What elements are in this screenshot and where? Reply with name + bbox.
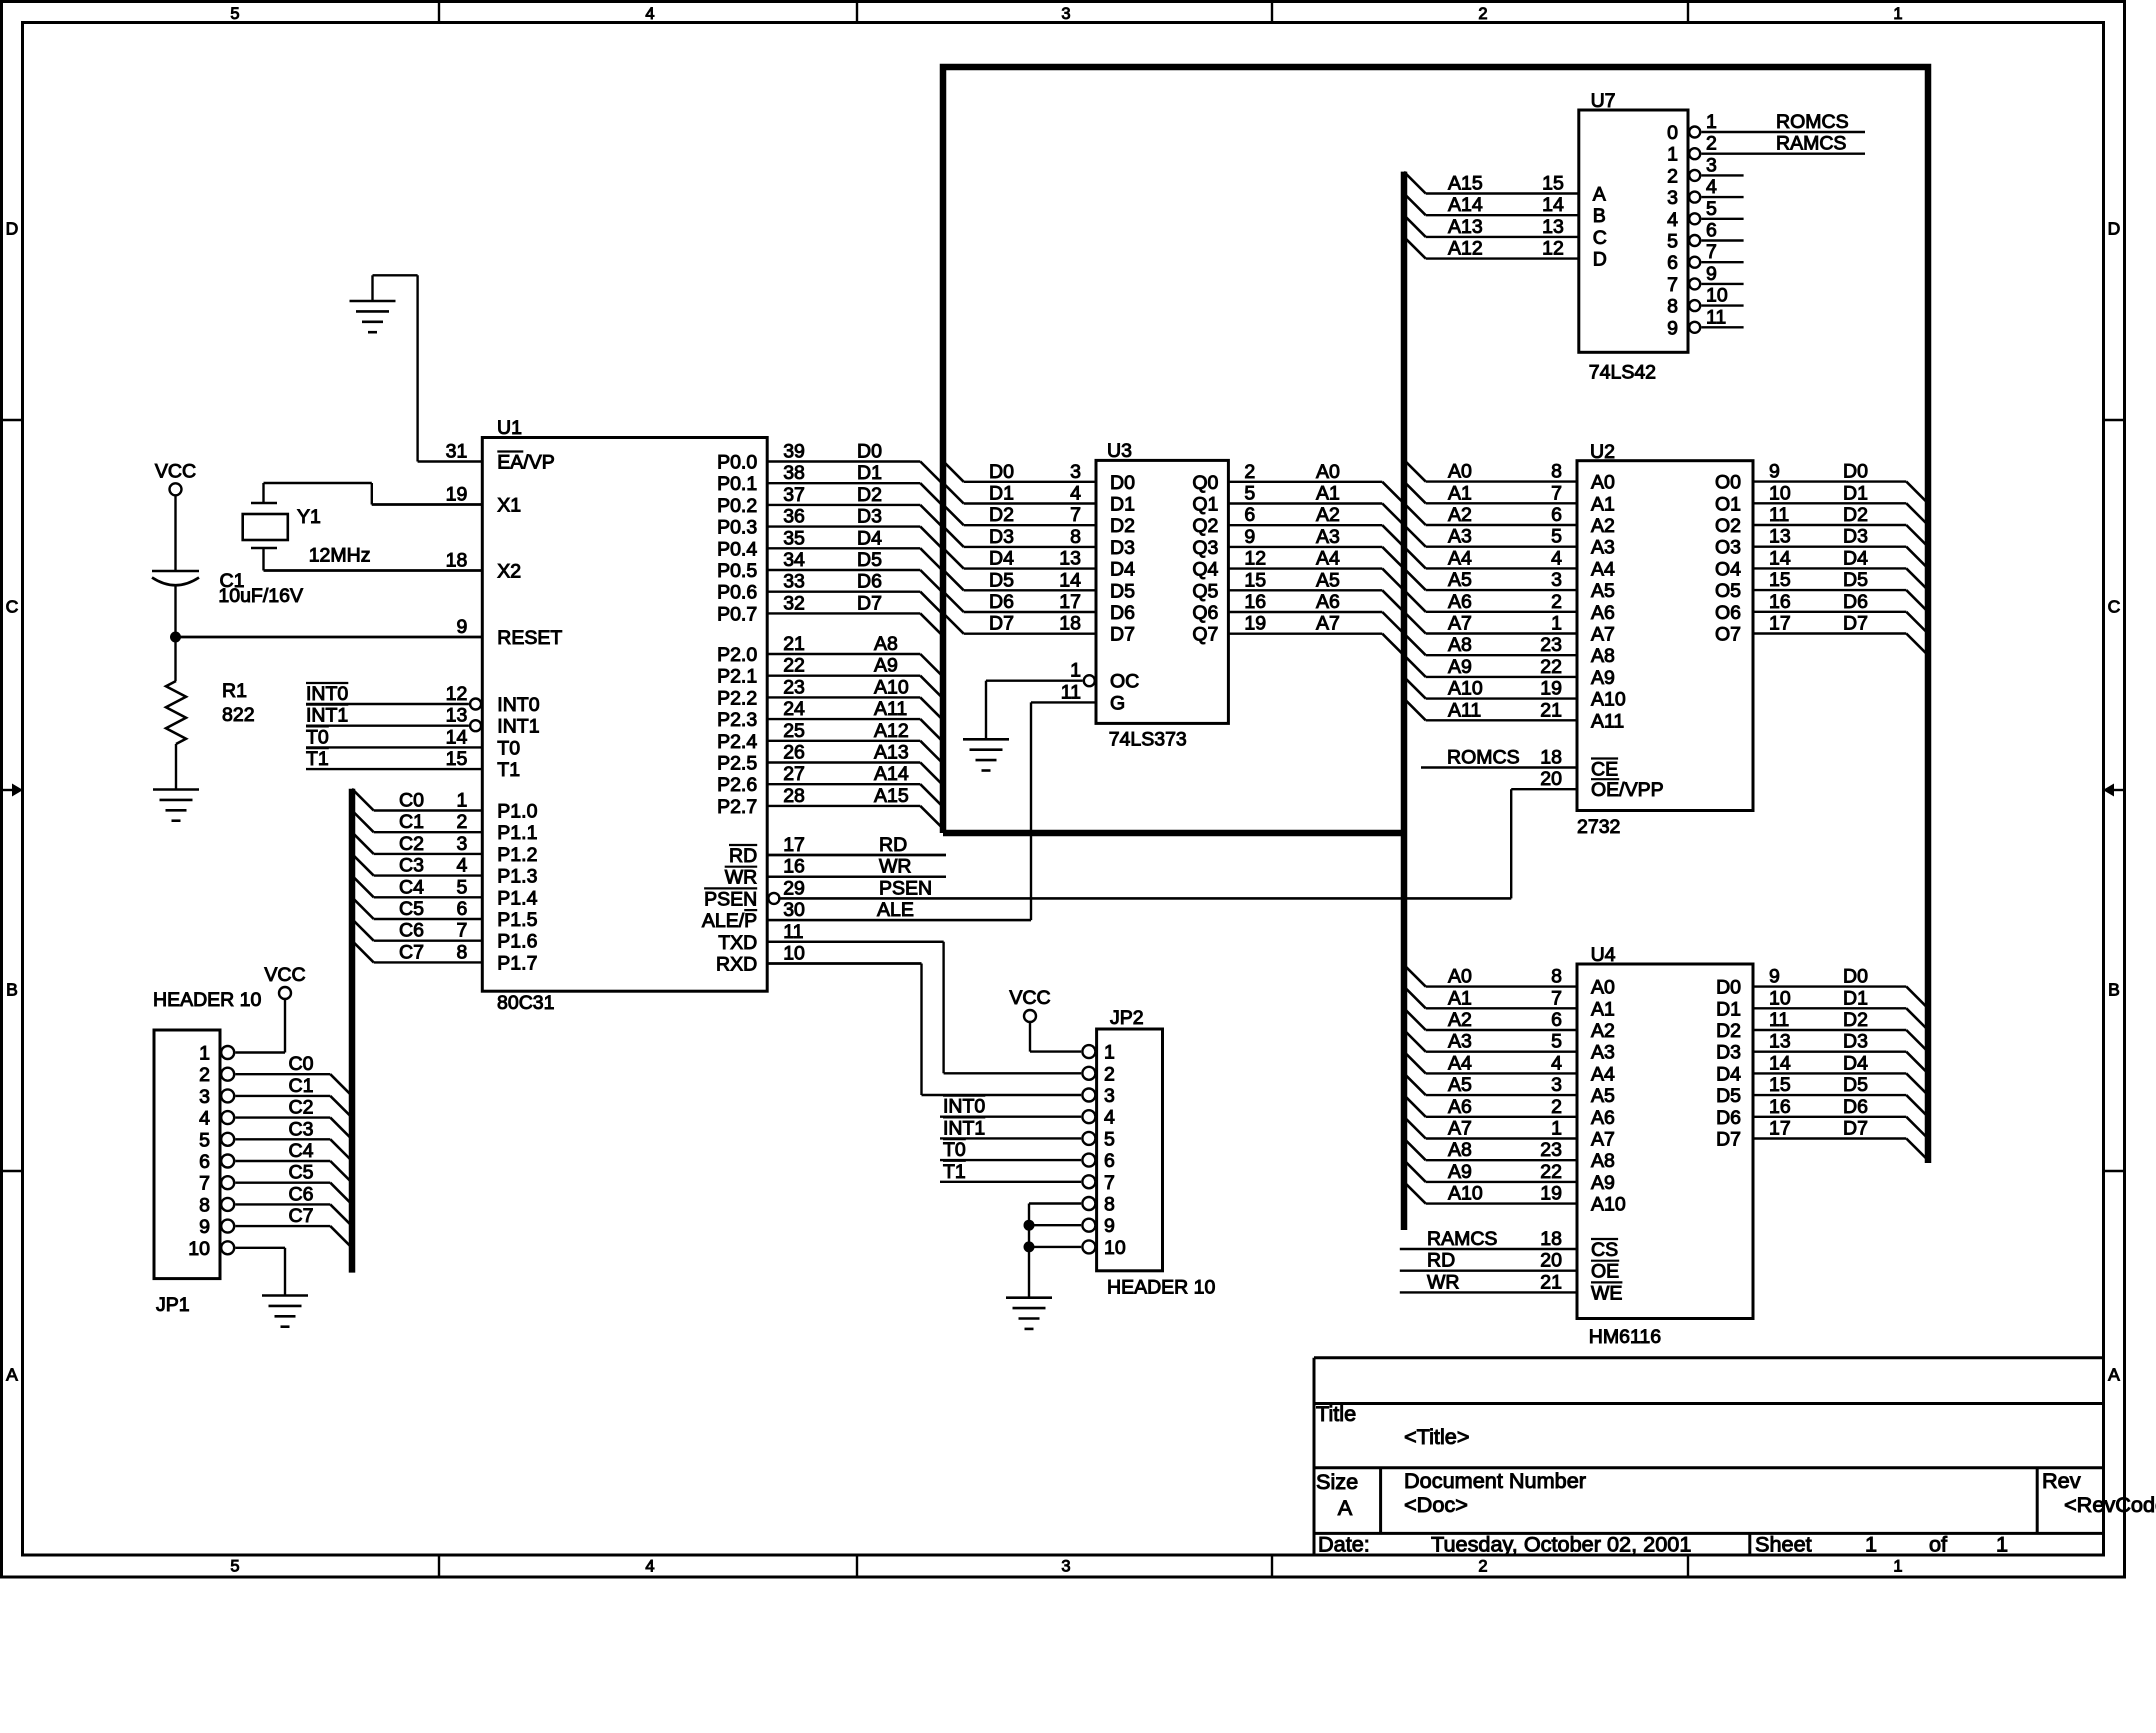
svg-text:A5: A5 xyxy=(1448,569,1472,591)
svg-text:10: 10 xyxy=(783,943,805,965)
svg-text:A: A xyxy=(1593,184,1606,206)
svg-text:5: 5 xyxy=(230,1558,239,1576)
svg-text:1: 1 xyxy=(1893,1558,1902,1576)
svg-text:D2: D2 xyxy=(1843,1009,1868,1031)
svg-text:13: 13 xyxy=(1059,548,1081,570)
svg-text:9: 9 xyxy=(1706,263,1717,285)
svg-text:P2.6: P2.6 xyxy=(717,774,757,796)
svg-text:T1: T1 xyxy=(497,759,520,781)
svg-text:A: A xyxy=(6,1365,18,1385)
svg-text:5: 5 xyxy=(456,876,467,898)
svg-text:D2: D2 xyxy=(857,484,882,506)
svg-text:19: 19 xyxy=(1540,678,1562,700)
svg-text:A0: A0 xyxy=(1316,461,1340,483)
svg-text:O6: O6 xyxy=(1715,602,1741,624)
svg-text:A10: A10 xyxy=(1448,1183,1483,1205)
svg-text:D6: D6 xyxy=(857,571,882,593)
svg-text:ALE: ALE xyxy=(877,899,914,921)
svg-text:JP2: JP2 xyxy=(1110,1007,1144,1029)
svg-text:Q3: Q3 xyxy=(1192,537,1218,559)
svg-text:11: 11 xyxy=(1769,1009,1789,1031)
svg-text:21: 21 xyxy=(783,633,805,655)
svg-text:U3: U3 xyxy=(1107,440,1132,462)
svg-text:D4: D4 xyxy=(1716,1063,1741,1085)
svg-text:13: 13 xyxy=(1542,216,1564,238)
svg-text:P1.7: P1.7 xyxy=(497,952,537,974)
svg-text:24: 24 xyxy=(783,698,805,720)
svg-text:ALE/P: ALE/P xyxy=(702,910,757,932)
svg-text:A11: A11 xyxy=(1448,699,1481,721)
svg-text:35: 35 xyxy=(783,527,805,549)
svg-text:A4: A4 xyxy=(1591,558,1615,580)
svg-text:A6: A6 xyxy=(1591,602,1615,624)
svg-text:4: 4 xyxy=(645,1558,654,1576)
svg-text:6: 6 xyxy=(1667,252,1678,274)
svg-text:A12: A12 xyxy=(874,720,909,742)
svg-text:A6: A6 xyxy=(1448,591,1472,613)
svg-text:17: 17 xyxy=(1769,613,1791,635)
svg-text:D7: D7 xyxy=(1716,1129,1741,1151)
svg-text:4: 4 xyxy=(456,855,467,877)
svg-text:A5: A5 xyxy=(1591,1085,1615,1107)
svg-text:A6: A6 xyxy=(1591,1107,1615,1129)
svg-text:7: 7 xyxy=(1667,274,1678,296)
svg-text:Q5: Q5 xyxy=(1192,580,1218,602)
svg-text:D4: D4 xyxy=(857,527,882,549)
svg-text:O1: O1 xyxy=(1715,493,1741,515)
svg-text:3: 3 xyxy=(199,1086,210,1108)
svg-text:Sheet: Sheet xyxy=(1755,1532,1812,1557)
svg-text:of: of xyxy=(1929,1532,1948,1557)
svg-text:1: 1 xyxy=(1893,5,1902,23)
svg-text:5: 5 xyxy=(1244,483,1255,505)
svg-text:7: 7 xyxy=(1551,987,1562,1009)
svg-text:C: C xyxy=(2108,597,2121,617)
svg-text:D5: D5 xyxy=(1110,580,1135,602)
svg-text:2: 2 xyxy=(1478,1558,1487,1576)
svg-text:HM6116: HM6116 xyxy=(1589,1326,1661,1348)
svg-text:P1.4: P1.4 xyxy=(497,887,537,909)
svg-text:D7: D7 xyxy=(989,613,1014,635)
svg-text:A7: A7 xyxy=(1448,1118,1472,1140)
svg-text:O5: O5 xyxy=(1715,580,1741,602)
svg-text:A11: A11 xyxy=(874,698,907,720)
svg-text:<RevCode>: <RevCode> xyxy=(2064,1492,2156,1517)
svg-text:2732: 2732 xyxy=(1577,816,1620,838)
svg-text:D3: D3 xyxy=(989,526,1014,548)
svg-text:P0.5: P0.5 xyxy=(717,560,757,582)
svg-text:11: 11 xyxy=(1706,306,1726,328)
svg-text:RD: RD xyxy=(729,845,757,867)
svg-text:5: 5 xyxy=(1551,526,1562,548)
svg-text:6: 6 xyxy=(1104,1150,1115,1172)
svg-text:VCC: VCC xyxy=(1009,987,1050,1009)
svg-text:8: 8 xyxy=(456,941,467,963)
svg-text:D3: D3 xyxy=(1843,1031,1868,1053)
svg-text:0: 0 xyxy=(1667,122,1678,144)
svg-text:G: G xyxy=(1110,692,1125,714)
svg-text:A11: A11 xyxy=(1591,710,1624,732)
svg-text:1: 1 xyxy=(1865,1532,1877,1557)
svg-text:<Title>: <Title> xyxy=(1404,1424,1470,1449)
svg-text:22: 22 xyxy=(783,655,805,677)
svg-text:D7: D7 xyxy=(857,592,882,614)
svg-text:HEADER 10: HEADER 10 xyxy=(153,989,262,1011)
svg-text:A3: A3 xyxy=(1591,1042,1615,1064)
svg-text:A8: A8 xyxy=(874,633,898,655)
svg-text:D3: D3 xyxy=(857,506,882,528)
svg-text:12: 12 xyxy=(1244,548,1266,570)
svg-text:74LS373: 74LS373 xyxy=(1109,729,1187,751)
svg-text:9: 9 xyxy=(1244,526,1255,548)
svg-text:X2: X2 xyxy=(497,561,521,583)
svg-text:9: 9 xyxy=(199,1216,210,1238)
svg-text:O7: O7 xyxy=(1715,624,1741,646)
svg-text:19: 19 xyxy=(1540,1183,1562,1205)
svg-text:9: 9 xyxy=(1769,966,1780,988)
svg-text:T0: T0 xyxy=(497,737,520,759)
svg-text:3: 3 xyxy=(1104,1085,1115,1107)
svg-text:A6: A6 xyxy=(1316,591,1340,613)
svg-text:27: 27 xyxy=(783,763,805,785)
svg-text:A7: A7 xyxy=(1591,1129,1615,1151)
svg-text:D7: D7 xyxy=(1110,624,1135,646)
svg-text:15: 15 xyxy=(1769,1074,1791,1096)
svg-text:4: 4 xyxy=(1104,1107,1115,1129)
svg-text:D0: D0 xyxy=(1843,461,1868,483)
svg-text:21: 21 xyxy=(1540,1271,1562,1293)
svg-text:3: 3 xyxy=(1070,461,1081,483)
svg-text:D3: D3 xyxy=(1110,537,1135,559)
svg-text:3: 3 xyxy=(1706,154,1717,176)
svg-text:P2.5: P2.5 xyxy=(717,753,757,775)
svg-text:29: 29 xyxy=(783,877,805,899)
svg-text:3: 3 xyxy=(1061,1558,1070,1576)
svg-text:C2: C2 xyxy=(289,1097,314,1119)
svg-text:4: 4 xyxy=(1070,483,1081,505)
svg-text:VCC: VCC xyxy=(155,460,196,482)
svg-text:INT0: INT0 xyxy=(497,694,539,716)
svg-text:EA/VP: EA/VP xyxy=(497,452,554,474)
svg-text:A4: A4 xyxy=(1591,1063,1615,1085)
svg-text:O2: O2 xyxy=(1715,515,1741,537)
svg-text:23: 23 xyxy=(1540,634,1562,656)
svg-text:RESET: RESET xyxy=(497,627,562,649)
svg-text:10: 10 xyxy=(1769,987,1791,1009)
svg-text:5: 5 xyxy=(1104,1128,1115,1150)
svg-text:P1.3: P1.3 xyxy=(497,866,537,888)
svg-text:3: 3 xyxy=(456,833,467,855)
svg-text:D0: D0 xyxy=(1843,966,1868,988)
svg-text:C0: C0 xyxy=(399,790,424,812)
svg-text:38: 38 xyxy=(783,462,805,484)
svg-text:11: 11 xyxy=(783,921,803,943)
svg-text:2: 2 xyxy=(456,811,467,833)
svg-text:Document Number: Document Number xyxy=(1404,1468,1586,1493)
svg-text:U4: U4 xyxy=(1591,944,1616,966)
svg-text:2: 2 xyxy=(199,1064,210,1086)
svg-text:P2.0: P2.0 xyxy=(717,644,757,666)
svg-text:D0: D0 xyxy=(1110,472,1135,494)
svg-text:A0: A0 xyxy=(1591,472,1615,494)
svg-text:3: 3 xyxy=(1551,569,1562,591)
svg-text:RAMCS: RAMCS xyxy=(1776,133,1846,155)
svg-text:25: 25 xyxy=(783,720,805,742)
svg-text:D1: D1 xyxy=(1110,494,1135,516)
svg-text:P2.3: P2.3 xyxy=(717,709,757,731)
svg-text:WR: WR xyxy=(1427,1271,1460,1293)
svg-text:B: B xyxy=(2108,980,2120,1000)
svg-text:RXD: RXD xyxy=(716,954,757,976)
svg-text:P2.1: P2.1 xyxy=(717,666,757,688)
svg-text:14: 14 xyxy=(446,726,468,748)
svg-text:13: 13 xyxy=(1769,1031,1791,1053)
svg-text:6: 6 xyxy=(199,1151,210,1173)
svg-text:5: 5 xyxy=(199,1129,210,1151)
svg-text:20: 20 xyxy=(1540,768,1562,790)
svg-text:INT1: INT1 xyxy=(497,716,539,738)
svg-text:D1: D1 xyxy=(989,483,1014,505)
svg-text:32: 32 xyxy=(783,592,805,614)
svg-text:16: 16 xyxy=(1244,591,1266,613)
svg-text:C6: C6 xyxy=(399,920,424,942)
svg-text:PSEN: PSEN xyxy=(879,877,932,899)
svg-text:9: 9 xyxy=(456,616,467,638)
svg-text:Q7: Q7 xyxy=(1192,624,1218,646)
svg-text:10: 10 xyxy=(1706,285,1728,307)
svg-text:T0: T0 xyxy=(943,1139,966,1161)
svg-text:13: 13 xyxy=(446,705,468,727)
svg-text:4: 4 xyxy=(1551,1052,1562,1074)
svg-text:OE: OE xyxy=(1591,1261,1619,1283)
svg-text:12MHz: 12MHz xyxy=(309,545,371,567)
svg-text:9: 9 xyxy=(1667,317,1678,339)
svg-text:34: 34 xyxy=(783,549,805,571)
svg-text:2: 2 xyxy=(1244,461,1255,483)
svg-text:T1: T1 xyxy=(306,748,329,770)
svg-text:A1: A1 xyxy=(1316,483,1340,505)
svg-text:10: 10 xyxy=(1104,1237,1126,1259)
svg-text:8: 8 xyxy=(1104,1194,1115,1216)
svg-text:23: 23 xyxy=(783,676,805,698)
svg-text:CS: CS xyxy=(1591,1239,1618,1261)
svg-text:C4: C4 xyxy=(399,876,424,898)
svg-text:A9: A9 xyxy=(1591,1172,1615,1194)
svg-text:10uF/16V: 10uF/16V xyxy=(218,585,303,607)
svg-text:5: 5 xyxy=(1667,231,1678,253)
svg-text:8: 8 xyxy=(1070,526,1081,548)
svg-text:P0.0: P0.0 xyxy=(717,452,757,474)
svg-text:P0.7: P0.7 xyxy=(717,603,757,625)
svg-text:19: 19 xyxy=(1244,613,1266,635)
svg-text:C5: C5 xyxy=(289,1162,314,1184)
svg-text:D6: D6 xyxy=(1843,1096,1868,1118)
svg-text:A4: A4 xyxy=(1316,548,1340,570)
svg-text:A2: A2 xyxy=(1591,1020,1615,1042)
svg-text:A2: A2 xyxy=(1591,515,1615,537)
svg-text:15: 15 xyxy=(1769,569,1791,591)
svg-text:D4: D4 xyxy=(1843,1052,1868,1074)
svg-text:C7: C7 xyxy=(399,941,424,963)
svg-text:8: 8 xyxy=(199,1194,210,1216)
svg-text:A5: A5 xyxy=(1591,580,1615,602)
svg-text:16: 16 xyxy=(783,856,805,878)
svg-text:15: 15 xyxy=(446,748,468,770)
svg-text:D3: D3 xyxy=(1716,1042,1741,1064)
svg-text:U7: U7 xyxy=(1591,90,1616,112)
svg-text:A14: A14 xyxy=(874,763,909,785)
svg-text:D6: D6 xyxy=(1843,591,1868,613)
svg-text:D4: D4 xyxy=(1843,547,1868,569)
svg-text:P0.6: P0.6 xyxy=(717,582,757,604)
svg-text:14: 14 xyxy=(1769,1052,1791,1074)
svg-text:A4: A4 xyxy=(1448,1052,1472,1074)
svg-text:P1.6: P1.6 xyxy=(497,931,537,953)
svg-text:D6: D6 xyxy=(1716,1107,1741,1129)
svg-text:A1: A1 xyxy=(1591,493,1615,515)
svg-text:2: 2 xyxy=(1551,1096,1562,1118)
svg-text:O4: O4 xyxy=(1715,558,1741,580)
svg-text:A9: A9 xyxy=(1448,656,1472,678)
svg-text:Q6: Q6 xyxy=(1192,602,1218,624)
svg-text:P1.2: P1.2 xyxy=(497,844,537,866)
svg-text:VCC: VCC xyxy=(264,964,305,986)
svg-text:8: 8 xyxy=(1551,966,1562,988)
svg-text:39: 39 xyxy=(783,441,805,463)
svg-text:A15: A15 xyxy=(1448,173,1483,195)
svg-text:P2.4: P2.4 xyxy=(717,731,757,753)
svg-text:U1: U1 xyxy=(497,417,522,439)
svg-text:A2: A2 xyxy=(1316,504,1340,526)
svg-text:P2.2: P2.2 xyxy=(717,687,757,709)
svg-text:A10: A10 xyxy=(1591,1194,1626,1216)
svg-text:15: 15 xyxy=(1244,569,1266,591)
svg-text:7: 7 xyxy=(456,920,467,942)
svg-text:23: 23 xyxy=(1540,1139,1562,1161)
svg-text:D5: D5 xyxy=(989,569,1014,591)
svg-text:22: 22 xyxy=(1540,656,1562,678)
svg-text:74LS42: 74LS42 xyxy=(1589,362,1656,384)
svg-text:14: 14 xyxy=(1059,569,1081,591)
svg-text:T0: T0 xyxy=(306,726,329,748)
svg-text:8: 8 xyxy=(1667,296,1678,318)
svg-text:6: 6 xyxy=(1551,504,1562,526)
svg-text:18: 18 xyxy=(1540,1228,1562,1250)
svg-text:5: 5 xyxy=(1551,1031,1562,1053)
svg-text:Rev: Rev xyxy=(2042,1468,2081,1493)
svg-text:D: D xyxy=(6,219,19,239)
svg-text:D1: D1 xyxy=(1843,482,1868,504)
svg-text:15: 15 xyxy=(1542,173,1564,195)
svg-text:C: C xyxy=(6,597,19,617)
svg-text:C: C xyxy=(1593,227,1607,249)
svg-text:3: 3 xyxy=(1667,187,1678,209)
svg-text:U2: U2 xyxy=(1590,441,1615,463)
svg-text:T1: T1 xyxy=(943,1161,966,1183)
svg-text:5: 5 xyxy=(230,5,239,23)
svg-text:OC: OC xyxy=(1110,671,1139,693)
svg-text:A2: A2 xyxy=(1448,1009,1472,1031)
svg-text:P0.3: P0.3 xyxy=(717,517,757,539)
svg-text:Size: Size xyxy=(1316,1469,1358,1494)
svg-text:12: 12 xyxy=(446,683,468,705)
svg-text:19: 19 xyxy=(446,484,468,506)
svg-text:1: 1 xyxy=(1104,1042,1115,1064)
svg-text:1: 1 xyxy=(199,1043,210,1065)
svg-text:O0: O0 xyxy=(1715,472,1741,494)
svg-text:A3: A3 xyxy=(1591,537,1615,559)
svg-text:ROMCS: ROMCS xyxy=(1776,111,1849,133)
svg-text:1: 1 xyxy=(1551,1118,1562,1140)
svg-text:INT0: INT0 xyxy=(943,1096,985,1118)
svg-text:A13: A13 xyxy=(1448,216,1483,238)
svg-text:A1: A1 xyxy=(1591,998,1615,1020)
svg-text:A9: A9 xyxy=(874,655,898,677)
svg-text:P0.4: P0.4 xyxy=(717,538,757,560)
svg-text:ROMCS: ROMCS xyxy=(1447,747,1520,769)
svg-text:C1: C1 xyxy=(289,1075,314,1097)
svg-text:18: 18 xyxy=(1540,747,1562,769)
svg-text:20: 20 xyxy=(1540,1250,1562,1272)
svg-text:D6: D6 xyxy=(1110,602,1135,624)
svg-text:1: 1 xyxy=(1070,660,1081,682)
svg-text:O3: O3 xyxy=(1715,537,1741,559)
svg-text:P1.5: P1.5 xyxy=(497,909,537,931)
svg-text:A4: A4 xyxy=(1448,547,1472,569)
svg-text:C5: C5 xyxy=(399,898,424,920)
svg-text:A8: A8 xyxy=(1448,1139,1472,1161)
svg-text:28: 28 xyxy=(783,785,805,807)
svg-text:1: 1 xyxy=(456,790,467,812)
svg-text:A12: A12 xyxy=(1448,238,1483,260)
svg-text:D0: D0 xyxy=(989,461,1014,483)
svg-text:RAMCS: RAMCS xyxy=(1427,1228,1497,1250)
svg-text:D2: D2 xyxy=(1843,504,1868,526)
svg-text:80C31: 80C31 xyxy=(497,992,554,1014)
svg-text:2: 2 xyxy=(1667,165,1678,187)
svg-text:2: 2 xyxy=(1551,591,1562,613)
svg-text:P1.0: P1.0 xyxy=(497,801,537,823)
svg-text:14: 14 xyxy=(1542,194,1564,216)
svg-text:A0: A0 xyxy=(1448,461,1472,483)
svg-text:B: B xyxy=(1593,205,1606,227)
svg-text:C2: C2 xyxy=(399,833,424,855)
svg-text:D5: D5 xyxy=(1843,569,1868,591)
svg-text:INT1: INT1 xyxy=(306,705,348,727)
svg-text:A8: A8 xyxy=(1591,1150,1615,1172)
svg-text:P0.2: P0.2 xyxy=(717,495,757,517)
svg-text:R1: R1 xyxy=(222,680,247,702)
svg-text:D0: D0 xyxy=(857,441,882,463)
svg-text:37: 37 xyxy=(783,484,805,506)
svg-text:10: 10 xyxy=(1769,482,1791,504)
svg-text:D3: D3 xyxy=(1843,526,1868,548)
svg-text:A7: A7 xyxy=(1448,613,1472,635)
svg-text:3: 3 xyxy=(1061,5,1070,23)
svg-text:A9: A9 xyxy=(1591,667,1615,689)
svg-text:26: 26 xyxy=(783,742,805,764)
svg-text:A9: A9 xyxy=(1448,1161,1472,1183)
svg-text:11: 11 xyxy=(1061,681,1081,703)
svg-text:4: 4 xyxy=(1706,176,1717,198)
svg-text:WR: WR xyxy=(879,856,912,878)
svg-text:1: 1 xyxy=(1667,144,1678,166)
svg-text:Date:: Date: xyxy=(1318,1532,1370,1557)
svg-text:PSEN: PSEN xyxy=(704,888,757,910)
svg-text:3: 3 xyxy=(1551,1074,1562,1096)
svg-text:D6: D6 xyxy=(989,591,1014,613)
svg-text:822: 822 xyxy=(222,704,255,726)
